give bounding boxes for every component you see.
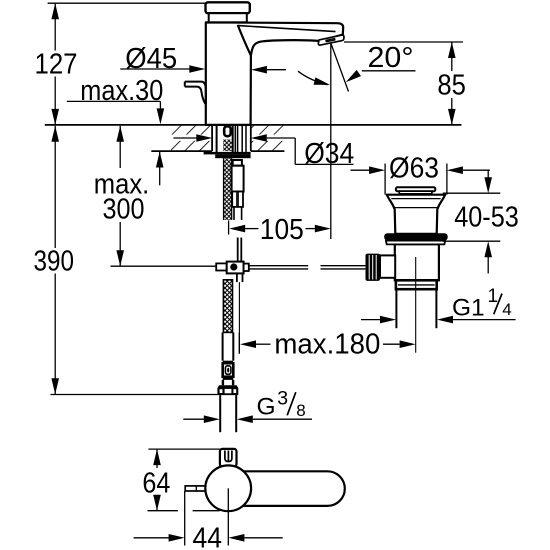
- hose coupling pair: [232, 192, 243, 207]
- countertop bottom line right: [251, 150, 285, 152]
- svg-text:40-53: 40-53: [454, 201, 519, 233]
- aerator: [318, 35, 344, 45]
- connector white band: [223, 380, 233, 385]
- pipe below nut: [220, 395, 236, 432]
- extension line 44 left: [184, 491, 186, 546]
- drain thread flange: [396, 280, 437, 289]
- svg-text:G: G: [257, 394, 276, 421]
- svg-text:127: 127: [35, 48, 78, 80]
- top view lever tab: [185, 486, 205, 491]
- drain plug band: [399, 191, 432, 194]
- cross left arm box: [216, 263, 227, 270]
- label G3/8: [257, 387, 306, 420]
- knob boss: [380, 255, 395, 277]
- top view body circle: [205, 465, 251, 511]
- top view knob slot: [225, 451, 232, 462]
- dimension 44: [134, 522, 283, 550]
- label 20deg: [346, 42, 416, 82]
- dimension 64 line: [153, 449, 161, 511]
- top cap: [206, 2, 250, 13]
- top view spout pill: [240, 471, 345, 506]
- dimension max.300 text: [94, 169, 150, 226]
- svg-text:105: 105: [260, 214, 304, 246]
- threaded mounting stud: [224, 158, 232, 220]
- dimension 105: [229, 214, 331, 246]
- top view knob: [220, 449, 237, 467]
- svg-text:20°: 20°: [368, 42, 414, 74]
- dimension D63: [351, 153, 490, 195]
- dimension max.300 line: [116, 126, 124, 266]
- label D45: [120, 43, 205, 75]
- max.30 lower arrow: [156, 152, 164, 186]
- svg-text:Ø63: Ø63: [389, 153, 439, 185]
- hose end connector: [223, 363, 234, 377]
- temperature lever: [185, 82, 206, 104]
- neck: [209, 13, 247, 22]
- svg-text:1: 1: [488, 286, 499, 307]
- svg-text:8: 8: [296, 401, 305, 420]
- rod extension line: [238, 282, 240, 354]
- svg-text:4: 4: [502, 300, 511, 319]
- deck hole left edge: [211, 125, 213, 151]
- drain tailpipe: [396, 289, 436, 328]
- mounting washer wide: [204, 152, 251, 155]
- extension line 44 right centerline: [227, 488, 229, 545]
- svg-text:300: 300: [103, 194, 145, 226]
- dimension 85 line: [448, 42, 456, 125]
- 20 degree arc arrow: [298, 71, 330, 85]
- drain body: [395, 244, 439, 280]
- hose tube below braid: [223, 332, 234, 360]
- horizontal pull rod segment 1: [249, 266, 308, 269]
- cross pivot dot: [230, 263, 237, 270]
- hose pipes in hole: [235, 125, 246, 152]
- dimension 40-53: [443, 170, 519, 273]
- o-ring lip: [386, 241, 445, 245]
- cross main box: [227, 262, 244, 274]
- tube below cross: [237, 273, 243, 282]
- G3/8 nut: [217, 385, 238, 395]
- hose stub below coupling: [234, 207, 242, 220]
- spout armpit curve: [238, 25, 251, 56]
- svg-text:64: 64: [142, 468, 170, 500]
- svg-text:Ø34: Ø34: [304, 138, 354, 170]
- countertop hatch left: [171, 126, 212, 151]
- svg-text:G1: G1: [452, 295, 485, 322]
- cross right stub: [244, 264, 249, 271]
- shank tube in hole: [217, 125, 233, 152]
- dimension 127 line: [51, 3, 59, 125]
- spout outlet reference line: [330, 43, 332, 239]
- extension line 390 bottom: [51, 394, 218, 396]
- pop-up rod tube above cross: [238, 238, 242, 262]
- dimension 390 line: [51, 126, 59, 395]
- extension line 85 top: [344, 41, 463, 43]
- deck hole right edge: [250, 125, 252, 151]
- D34 left arrow: [174, 134, 213, 142]
- drain flange cone: [387, 195, 446, 234]
- dimension max.180: [239, 328, 415, 360]
- o-ring: [384, 233, 448, 240]
- 20 degree slant line: [331, 43, 349, 91]
- dimension G1 1/4 arrows: [361, 316, 516, 324]
- svg-text:3: 3: [277, 387, 288, 409]
- drain centerline: [415, 257, 417, 353]
- flange inner line 2: [393, 207, 439, 209]
- hose crimp band: [223, 361, 233, 364]
- hose connector collar: [233, 160, 242, 166]
- dimension G3/8 arrows: [183, 415, 312, 423]
- spout inner top line: [238, 26, 335, 32]
- shank set-screw window: [224, 126, 231, 136]
- braided flex hose: [223, 280, 232, 333]
- svg-text:44: 44: [193, 522, 223, 550]
- mounting nut bar: [215, 154, 250, 158]
- countertop hatch right: [251, 126, 285, 151]
- label max.30: [67, 75, 164, 125]
- extension line 64 top: [148, 448, 219, 450]
- hose connector tube: [232, 166, 244, 192]
- horizontal pull rod segment 2: [321, 266, 366, 269]
- svg-text:max.180: max.180: [274, 328, 380, 360]
- faucet body and spout outline: [206, 22, 343, 125]
- D34 right arrow and leader: [251, 134, 354, 164]
- svg-text:85: 85: [437, 70, 466, 102]
- cross left arm line: [111, 265, 217, 267]
- countertop top line: [45, 124, 462, 126]
- countertop bottom line left: [151, 150, 212, 152]
- flange inner line 1: [391, 198, 440, 200]
- svg-text:390: 390: [34, 246, 75, 278]
- extension line 64 bottom: [148, 510, 220, 512]
- D45 right arrow: [251, 66, 286, 74]
- svg-text:Ø45: Ø45: [125, 43, 177, 75]
- connector dark band: [223, 377, 234, 380]
- drain plug disc: [396, 187, 435, 191]
- label G1 1/4: [452, 286, 512, 321]
- knurled rod knob: [366, 254, 381, 281]
- extension line faucet top: [48, 2, 206, 4]
